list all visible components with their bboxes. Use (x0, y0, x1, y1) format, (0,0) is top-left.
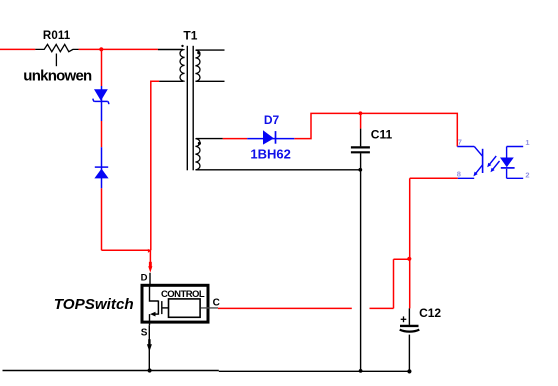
svg-text:unknowen: unknowen (23, 67, 92, 84)
svg-text:1BH62: 1BH62 (250, 146, 290, 161)
svg-text:2: 2 (525, 170, 529, 179)
svg-text:D: D (141, 272, 148, 283)
svg-text:S: S (141, 327, 148, 338)
svg-text:C: C (213, 297, 220, 308)
svg-text:1: 1 (525, 138, 529, 147)
svg-text:7: 7 (458, 137, 462, 146)
svg-text:C12: C12 (419, 306, 441, 320)
svg-text:CONTROL: CONTROL (161, 289, 205, 300)
svg-text:C11: C11 (371, 127, 393, 141)
svg-text:8: 8 (457, 170, 461, 179)
svg-text:T1: T1 (183, 29, 197, 43)
svg-text:D7: D7 (264, 113, 280, 127)
svg-text:TOPSwitch: TOPSwitch (54, 296, 134, 313)
svg-text:R011: R011 (43, 30, 71, 42)
